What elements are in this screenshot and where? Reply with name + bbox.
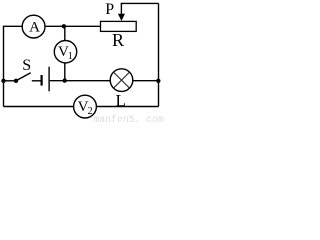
node: junction under V1 — [62, 78, 66, 82]
svg-text:manfen5. com: manfen5. com — [94, 114, 164, 124]
wire: wiper to top-right corner — [121, 2, 159, 4]
svg-text:1: 1 — [68, 51, 73, 62]
svg-text:S: S — [22, 57, 31, 74]
wire: ammeter to rheostat — [45, 25, 101, 27]
wire: junction down to voltmeter V1 — [64, 26, 66, 40]
switch S1 — [14, 73, 31, 83]
lamp L1 — [110, 69, 133, 92]
node: junction right middle — [156, 79, 160, 83]
svg-text:2: 2 — [88, 106, 93, 117]
wire: bottom right horizontal — [96, 106, 158, 108]
resistor R (rheostat body) — [101, 21, 137, 31]
wire: left vertical — [3, 26, 5, 106]
wire: lamp to right vertical — [133, 80, 159, 82]
svg-text:A: A — [29, 20, 40, 36]
wire: voltmeter V1 down to middle wire — [64, 63, 66, 81]
ammeter A1 — [22, 15, 45, 38]
wire: top-left horizontal to ammeter — [3, 25, 23, 27]
svg-text:P: P — [105, 1, 114, 18]
wiper arrow of rheostat — [118, 3, 125, 21]
battery B1 — [42, 67, 50, 92]
wire: bottom left horizontal — [4, 106, 74, 108]
node: left junction middle wire — [1, 79, 5, 83]
wire: switch to battery — [32, 80, 41, 82]
voltmeter V2 — [74, 95, 97, 118]
wire: left to switch pivot — [4, 80, 17, 82]
wire: battery to lamp — [50, 80, 111, 82]
node: junction top (V1 tap) — [62, 24, 66, 28]
voltmeter V1 — [54, 41, 76, 63]
wire: right vertical — [158, 3, 160, 106]
svg-text:R: R — [112, 30, 124, 50]
